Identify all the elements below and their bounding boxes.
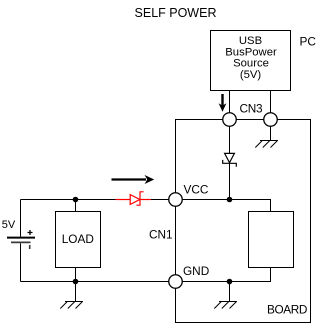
wire diode to VCC pin [151,199,169,201]
svg-text:USB: USB [239,35,262,47]
current flow arrow (down) [219,94,227,112]
svg-text:CN3: CN3 [240,102,263,116]
battery BT1 5V [7,200,35,282]
wire GND rail [182,268,270,282]
svg-text:LOAD: LOAD [62,232,94,246]
junction dot (zener / VCC rail) [227,197,233,203]
ground (under CN3 pin 2) [255,141,278,148]
wire junction to ground (bottom left) [75,282,77,302]
svg-text:Source: Source [233,58,269,70]
svg-text:(5V): (5V) [240,69,262,81]
battery minus mark [29,245,31,249]
battery plus mark [28,230,33,235]
svg-text:SELF POWER: SELF POWER [135,6,217,20]
connector CN3 pin 1 (VBUS) [223,113,237,127]
wire VCC rail [182,200,270,212]
wire battery + to diode (top left) [21,199,116,201]
connector CN1 GND pin [169,275,183,289]
svg-text:5V: 5V [2,219,16,231]
wire CN3 pin 2 to ground [270,126,272,140]
zener diode D2 [223,153,237,166]
junction dot (GND rail / ground) [227,279,233,285]
svg-text:GND: GND [183,264,209,278]
wire USB box to CN3 pin 1 [229,91,231,114]
ground (bottom left) [60,302,83,309]
wire CN3 pin 1 to zener [229,126,231,153]
USB bus power source box U1 [211,31,291,91]
junction dot (battery bottom / LOAD) [73,279,79,285]
svg-text:CN1: CN1 [149,227,173,241]
wire battery - to GND pin (bottom left) [21,281,169,283]
wire GND rail to ground [229,282,231,302]
current flow arrow (right) [112,175,155,184]
board outline BOARD [176,120,311,323]
svg-text:VCC: VCC [184,183,209,197]
diode D1 (red, backflow protection) [116,192,152,205]
connector CN3 pin 2 (GND) [264,113,278,127]
wire junction to LOAD top [75,200,77,212]
wire LOAD bottom to GND rail [75,268,77,282]
wire zener to VCC rail [229,163,231,199]
ground (board GND) [214,302,237,309]
connector CN1 VCC pin [169,193,183,207]
svg-text:PC: PC [300,34,317,48]
svg-text:BOARD: BOARD [267,303,307,317]
wire USB box to CN3 pin 2 [270,91,272,114]
load box LOAD [56,212,101,268]
junction dot (battery top / LOAD) [73,197,79,203]
board circuit block [249,212,294,268]
